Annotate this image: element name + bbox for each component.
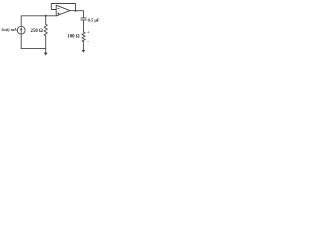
capacitor C1 plates	[81, 18, 87, 20]
ground arrow left shaft	[45, 49, 47, 53]
current source I1 arrowhead (up)	[20, 27, 23, 30]
wire top-left from source to op-amp + input	[21, 16, 56, 26]
output wire	[70, 11, 84, 18]
svg-text:0.5 μF: 0.5 μF	[88, 18, 100, 23]
ground arrow left (arrowhead)	[44, 53, 48, 56]
svg-text:+: +	[87, 29, 90, 34]
svg-text:5u(t) mA: 5u(t) mA	[1, 27, 17, 32]
node junction dot at R1 top	[45, 15, 47, 17]
wire R2 to ground arrow	[82, 41, 84, 49]
current source I1 arrow shaft	[20, 29, 22, 33]
wire resistor R1 leads	[45, 16, 47, 49]
ground arrow right (arrowhead)	[82, 50, 86, 53]
resistor R2 zigzag 100 ohm	[82, 32, 85, 42]
op-amp plus sign	[58, 13, 60, 15]
node junction dot at feedback takeoff	[75, 10, 77, 12]
svg-text:100 Ω: 100 Ω	[67, 35, 79, 40]
current source I1 circle	[17, 26, 25, 34]
op-amp minus sign	[58, 8, 60, 10]
feedback wire from output to inverting input	[51, 4, 75, 11]
svg-text:250 Ω: 250 Ω	[31, 29, 43, 34]
op-amp U1 triangle	[56, 5, 70, 16]
wire bottom-left	[21, 34, 46, 49]
resistor R1 zigzag 250 ohm	[44, 24, 47, 35]
wire cap to resistor R2	[83, 20, 85, 32]
svg-text:-: -	[87, 38, 89, 43]
